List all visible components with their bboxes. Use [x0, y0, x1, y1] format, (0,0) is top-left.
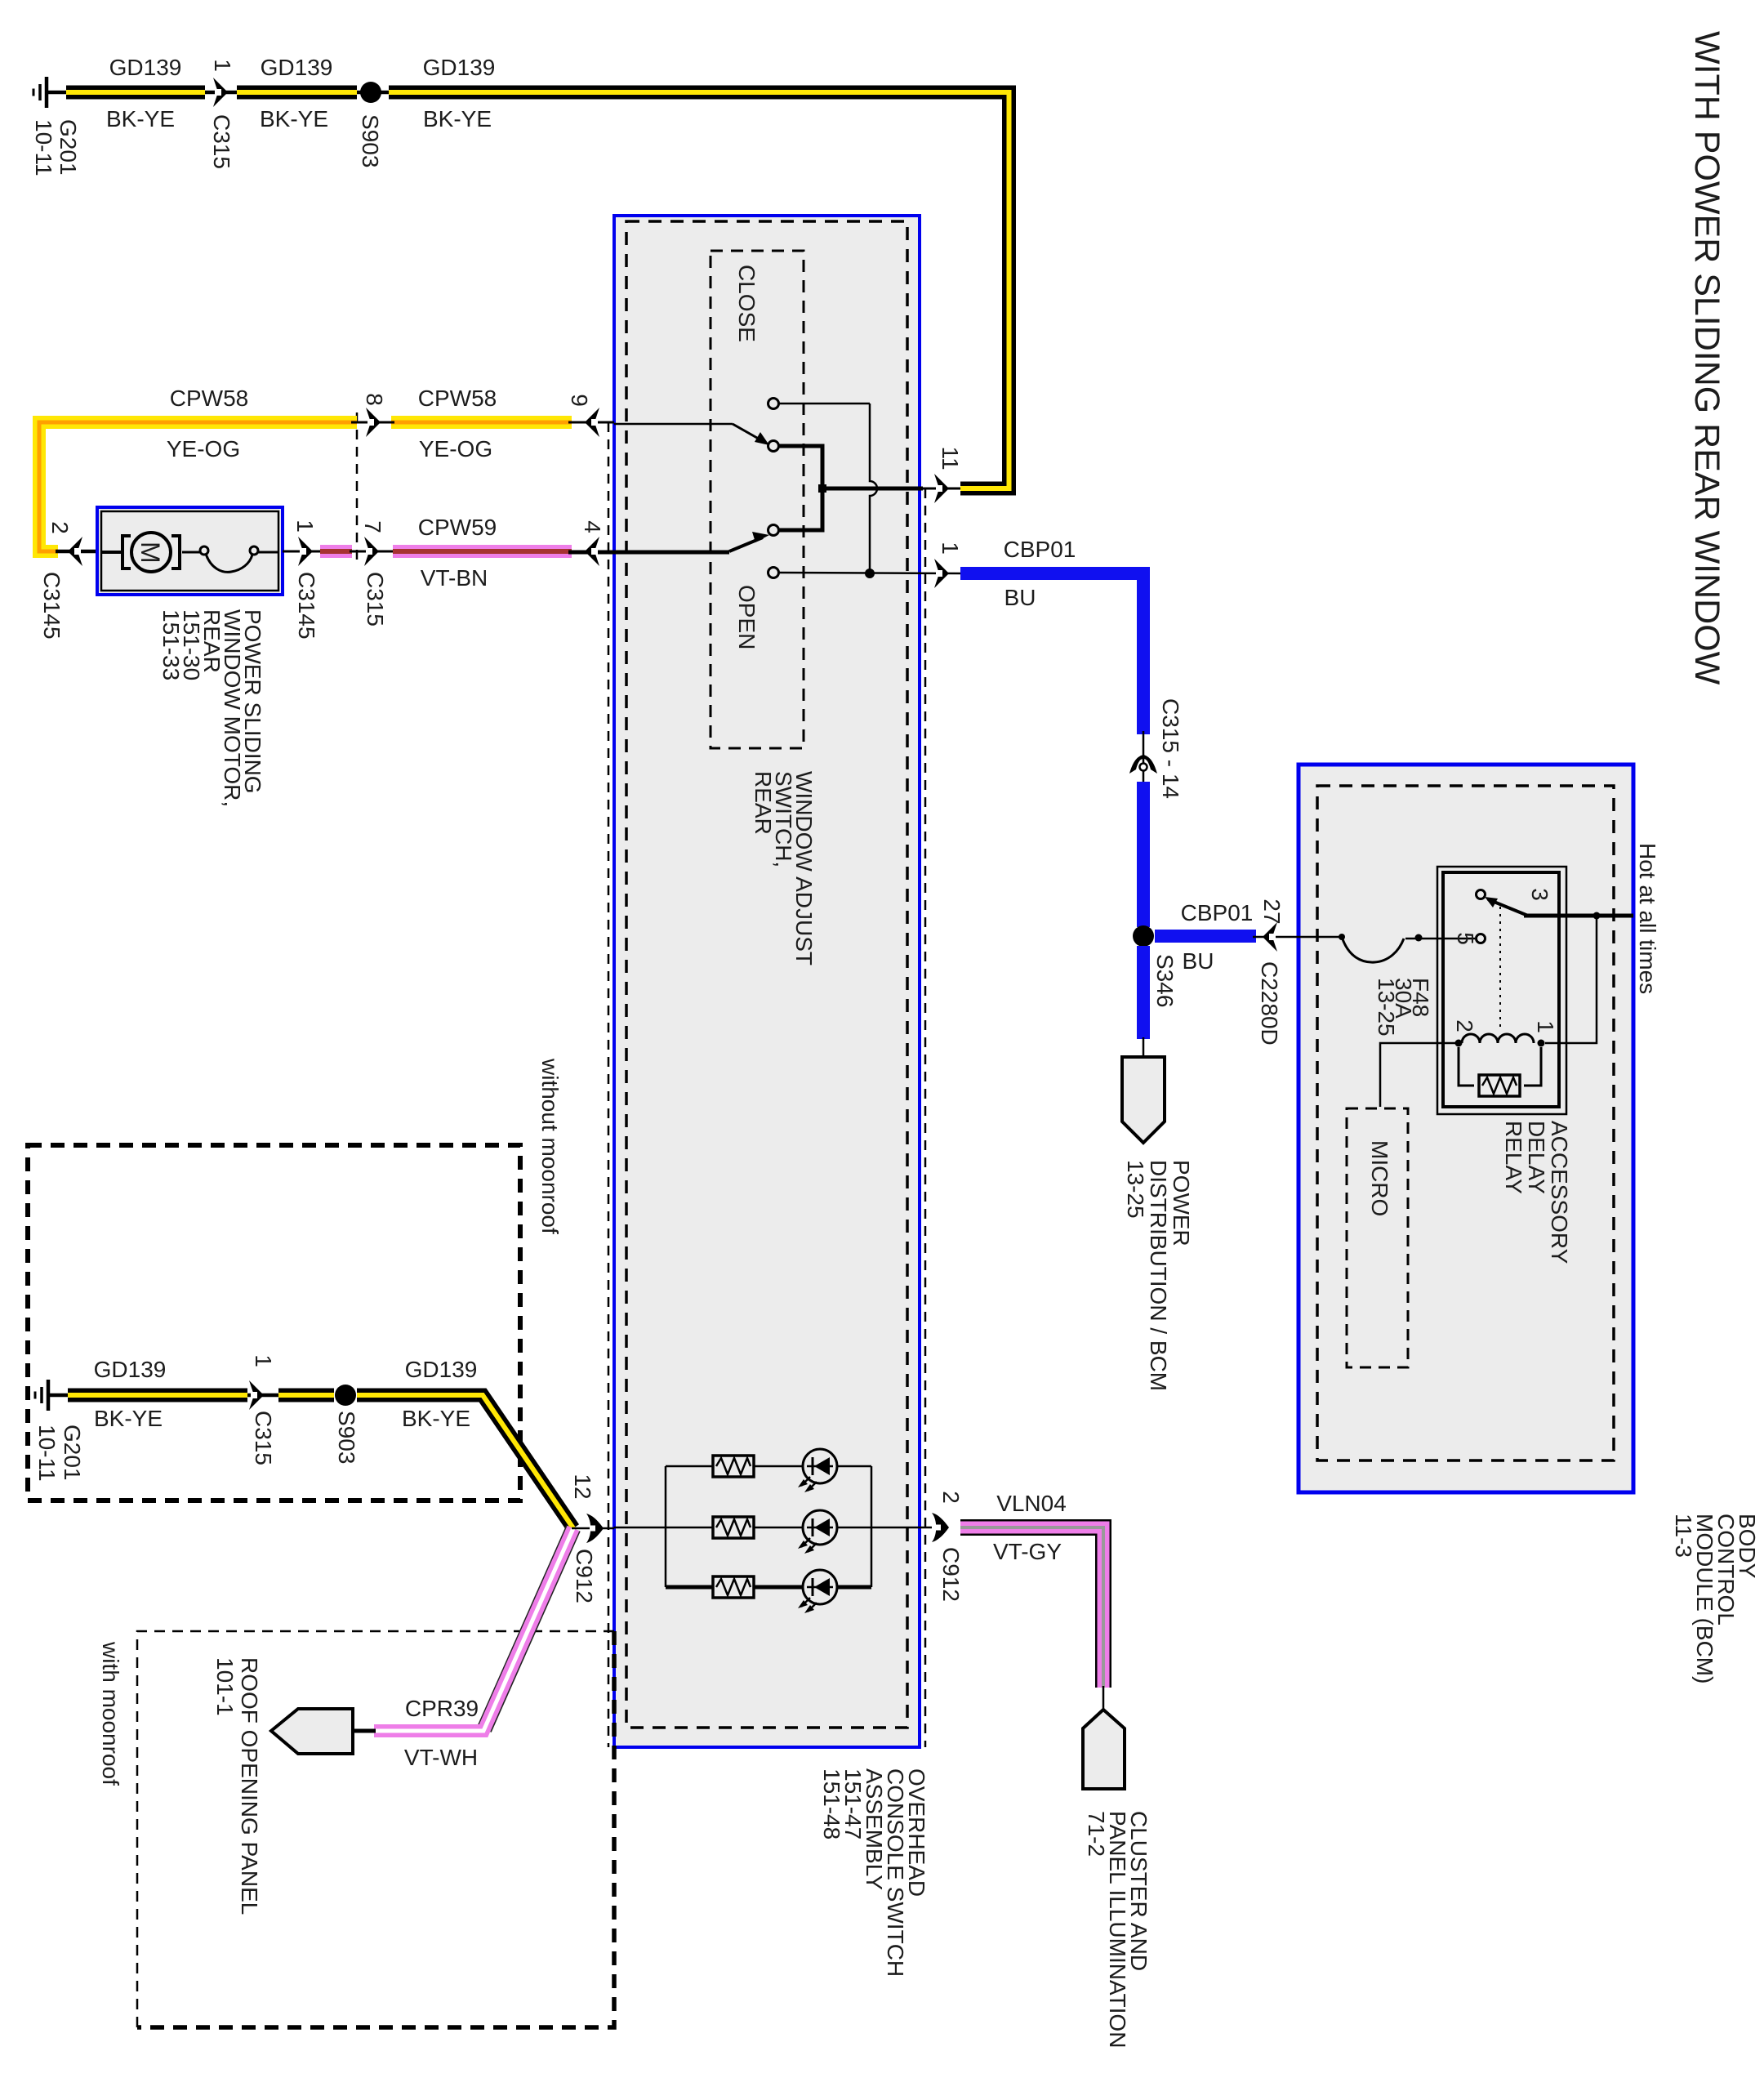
svg-text:CLOSE: CLOSE [734, 265, 759, 342]
svg-text:BK-YE: BK-YE [260, 106, 328, 132]
svg-text:CPW58: CPW58 [170, 386, 248, 411]
svg-text:2: 2 [938, 1491, 964, 1504]
svg-text:C315 - 14: C315 - 14 [1158, 698, 1183, 799]
svg-text:BU: BU [1183, 948, 1214, 974]
svg-text:YE-OG: YE-OG [419, 436, 492, 462]
svg-text:1: 1 [938, 542, 963, 555]
svg-text:C315: C315 [251, 1411, 276, 1465]
svg-text:4: 4 [580, 520, 605, 533]
svg-text:9: 9 [567, 394, 592, 407]
svg-text:S903: S903 [334, 1411, 359, 1464]
svg-text:27: 27 [1259, 899, 1285, 924]
svg-text:GD139: GD139 [109, 55, 182, 80]
svg-text:S903: S903 [358, 114, 383, 167]
svg-text:C912: C912 [572, 1549, 597, 1603]
svg-text:GD139: GD139 [94, 1357, 167, 1382]
svg-text:G20110-11: G20110-11 [34, 1425, 85, 1482]
svg-text:C3145: C3145 [294, 572, 319, 640]
svg-text:CPW58: CPW58 [418, 386, 497, 411]
svg-text:VT-BN: VT-BN [421, 565, 488, 591]
svg-text:VLN04: VLN04 [996, 1491, 1067, 1516]
svg-text:GD139: GD139 [423, 55, 496, 80]
svg-text:5: 5 [1453, 932, 1478, 945]
svg-text:BK-YE: BK-YE [423, 106, 492, 132]
svg-text:M: M [136, 542, 165, 564]
svg-text:with moonroof: with moonroof [98, 1641, 123, 1786]
svg-text:C2280D: C2280D [1257, 961, 1282, 1046]
svg-text:CBP01: CBP01 [1004, 537, 1076, 562]
svg-text:11: 11 [938, 446, 963, 470]
svg-text:OPEN: OPEN [734, 585, 759, 649]
svg-text:CBP01: CBP01 [1181, 900, 1254, 925]
svg-text:WITH POWER SLIDING REAR WINDOW: WITH POWER SLIDING REAR WINDOW [1687, 31, 1726, 685]
svg-text:VT-GY: VT-GY [993, 1539, 1062, 1564]
svg-text:CPR39: CPR39 [405, 1696, 479, 1721]
svg-text:CPW59: CPW59 [418, 515, 497, 540]
svg-text:GD139: GD139 [405, 1357, 478, 1382]
svg-text:BU: BU [1004, 585, 1036, 610]
svg-text:7: 7 [360, 520, 385, 533]
svg-text:C912: C912 [938, 1547, 964, 1602]
svg-text:1: 1 [210, 59, 235, 72]
svg-text:C315: C315 [363, 572, 388, 627]
svg-text:2: 2 [47, 521, 73, 534]
svg-text:3: 3 [1527, 888, 1552, 901]
svg-text:S346: S346 [1152, 954, 1178, 1007]
svg-text:C315: C315 [209, 114, 234, 169]
svg-text:BK-YE: BK-YE [402, 1406, 470, 1431]
svg-text:BK-YE: BK-YE [106, 106, 175, 132]
svg-text:GD139: GD139 [261, 55, 333, 80]
svg-text:YE-OG: YE-OG [167, 436, 240, 462]
svg-text:BK-YE: BK-YE [94, 1406, 163, 1431]
svg-text:12: 12 [570, 1474, 595, 1499]
svg-text:Hot at all times: Hot at all times [1635, 843, 1660, 994]
svg-text:G20110-11: G20110-11 [31, 119, 81, 176]
svg-text:1: 1 [251, 1354, 276, 1367]
svg-text:2: 2 [1452, 1019, 1477, 1032]
svg-text:MICRO: MICRO [1367, 1140, 1392, 1216]
svg-text:without moonroof: without moonroof [537, 1058, 563, 1234]
svg-text:C3145: C3145 [39, 572, 65, 640]
svg-text:8: 8 [362, 393, 387, 406]
svg-text:1: 1 [292, 519, 318, 533]
svg-text:VT-WH: VT-WH [404, 1745, 478, 1770]
svg-text:1: 1 [1533, 1020, 1558, 1033]
